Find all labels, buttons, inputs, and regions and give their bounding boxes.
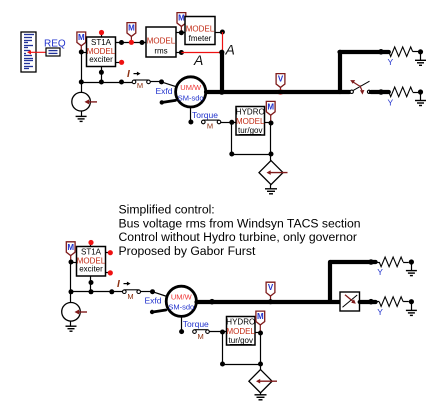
wire machine2 torque: [181, 316, 183, 331]
wire exciter2 upper-right stub: [106, 252, 109, 254]
node: [79, 80, 84, 85]
switch S1 (open, controlled): [350, 80, 371, 95]
probe M4 (fmeter input): [177, 13, 186, 33]
svg-text:M: M: [178, 14, 185, 23]
unconnected node (red) exciter top: [99, 30, 104, 35]
svg-text:SM-sdo: SM-sdo: [168, 303, 194, 312]
node: [179, 30, 184, 35]
svg-text:M: M: [197, 332, 203, 341]
node (red) under M2: [129, 40, 134, 45]
governor block HYDRO MODEL tur/gov: [236, 107, 265, 136]
wire M7 to exciter 2: [71, 262, 77, 264]
node: [409, 259, 414, 264]
node: [69, 289, 74, 294]
wire exciter2 top stub: [90, 244, 92, 247]
svg-text:A: A: [193, 52, 203, 68]
controlled source T2 (diamond): [249, 370, 277, 393]
node: [140, 40, 145, 45]
machine neutral stub: [160, 100, 176, 104]
svg-text:I: I: [127, 69, 130, 80]
node (red) under V1: [278, 89, 283, 94]
svg-text:MODEL: MODEL: [186, 25, 215, 34]
wire feedback right vertical: [270, 123, 272, 154]
branch top 2 (thick): [331, 260, 376, 264]
svg-text:Simplified control:: Simplified control:: [119, 203, 215, 217]
node: [368, 259, 374, 265]
node: [368, 299, 374, 305]
node under V2: [268, 299, 273, 304]
node: [269, 121, 274, 126]
wire feedback2 bottom: [223, 364, 261, 366]
wire hydro right stub: [265, 122, 272, 124]
node: [378, 89, 384, 95]
source V2 (AC source): [62, 303, 87, 322]
svg-text:MODEL: MODEL: [147, 37, 176, 46]
red request arrow: [27, 50, 46, 54]
node: [258, 362, 263, 367]
wire exciter top stub: [101, 34, 103, 37]
svg-text:Bus voltage rms from Windsyn T: Bus voltage rms from Windsyn TACS sectio…: [119, 216, 361, 230]
controlled source T1 (diamond): [259, 161, 288, 185]
bus main 2 (thick): [197, 300, 340, 304]
unconnected node (red) exciter2 top: [88, 240, 93, 245]
node: [188, 120, 193, 125]
wire (signal, red) fmeter down: [222, 32, 224, 52]
wire exciter lower-right stub: [116, 62, 120, 64]
ground R3: [406, 264, 417, 276]
node: [220, 362, 225, 367]
wire probe to hydro 2: [209, 331, 226, 333]
wire rms output stub: [176, 52, 181, 54]
svg-text:Torque: Torque: [183, 319, 209, 329]
ground source V2: [66, 321, 77, 331]
unconnected node (red): [119, 60, 124, 65]
machine2 neutral stub: [150, 310, 166, 314]
node: [409, 299, 414, 304]
node: [99, 80, 104, 85]
wire feedback2 left vertical: [222, 332, 224, 364]
wire source2 to node: [70, 292, 72, 303]
svg-text:tur/gov: tur/gov: [238, 126, 262, 135]
annotation text: [119, 203, 361, 258]
svg-text:A: A: [225, 42, 235, 58]
wire probe to hydro: [221, 122, 236, 124]
node: [179, 329, 184, 334]
bus node machine 2: [209, 299, 215, 305]
model box fmeter: [185, 17, 215, 45]
bus riser (thick): [220, 52, 224, 92]
probe M10 (governor 2): [256, 311, 265, 333]
ground T2: [255, 393, 267, 400]
svg-text:Exfd: Exfd: [156, 86, 173, 96]
ground R1: [415, 54, 426, 66]
svg-text:V: V: [278, 75, 284, 84]
node A junction: [219, 50, 224, 55]
probe V2 voltage: [266, 282, 275, 300]
wire exciter bottom: [101, 67, 103, 83]
probe V1 voltage: [276, 74, 285, 91]
svg-text:M: M: [137, 81, 143, 90]
svg-text:Control without Hydro turbine,: Control without Hydro turbine, only gove…: [119, 230, 357, 244]
wire switch2 to resistor R4: [360, 300, 376, 304]
wire bottom horizontal 2: [71, 291, 123, 293]
resistor R2 (lower load): [389, 87, 418, 97]
switch S2 (boxed, controlled): [340, 292, 360, 311]
node: [179, 50, 184, 55]
svg-text:M: M: [67, 243, 74, 252]
wire to source T2: [260, 364, 262, 370]
machine M1 UM/W SM-sdo: [176, 77, 206, 107]
current probe M3 with label I: [127, 69, 150, 90]
wire exciter output to rms: [116, 42, 147, 44]
exciter block U2 ST1A MODEL exciter: [77, 247, 106, 277]
branch riser (thick): [338, 52, 342, 92]
current probe M9 torque 2: [193, 330, 210, 341]
wire left vertical 2: [70, 262, 72, 292]
svg-text:Y: Y: [377, 307, 383, 317]
node: [150, 289, 155, 294]
node: [119, 40, 124, 45]
svg-text:ST1A: ST1A: [81, 248, 102, 257]
node exciter input: [79, 50, 84, 55]
branch riser 2 (thick): [328, 262, 332, 302]
wire bottom horizontal: [81, 82, 132, 84]
svg-text:Torque: Torque: [192, 110, 218, 120]
svg-text:Proposed by Gabor Furst: Proposed by Gabor Furst: [119, 244, 256, 258]
svg-text:M: M: [257, 312, 264, 321]
probe M2 (bus voltage): [127, 23, 136, 43]
wire rms to fmeter: [176, 32, 185, 34]
branch top (thick): [340, 50, 389, 54]
model box rms: [146, 27, 176, 57]
node: [119, 80, 124, 85]
probe M6 (governor): [266, 101, 275, 123]
node: [220, 30, 225, 35]
wire feedback2 right vertical: [260, 333, 262, 364]
ground R2: [415, 94, 426, 106]
svg-text:exciter: exciter: [89, 55, 113, 64]
wire hydro2 right stub: [255, 332, 261, 334]
wire feedback left vertical: [231, 122, 233, 154]
svg-text:HYDRO: HYDRO: [226, 318, 255, 327]
node: [378, 49, 384, 55]
bus junction: [219, 89, 225, 95]
svg-text:M: M: [78, 33, 85, 42]
svg-text:Exfd: Exfd: [145, 296, 162, 306]
unconnected node (red): [108, 270, 113, 275]
probe M7 (exciter input, circuit 2): [66, 242, 75, 262]
node: [220, 330, 225, 335]
svg-text:rms: rms: [154, 47, 167, 56]
wire probe to machine: [150, 82, 176, 87]
ground R4: [406, 304, 417, 316]
svg-text:exciter: exciter: [79, 265, 103, 274]
node: [89, 289, 94, 294]
node: [258, 331, 263, 336]
node: [109, 289, 114, 294]
bus main (thick): [206, 90, 349, 94]
wire exciter2 lower-right stub: [106, 272, 109, 274]
wire machine torque: [190, 107, 192, 122]
wire (signal, red) rms to node A: [181, 52, 222, 54]
machine M2 UM/W SM-sdo: [166, 286, 196, 316]
svg-text:UM/W: UM/W: [180, 83, 202, 92]
resistor R4 (lower load 2): [376, 297, 409, 307]
svg-text:MODEL: MODEL: [236, 117, 265, 126]
svg-text:Y: Y: [387, 57, 393, 67]
svg-text:MODEL: MODEL: [227, 327, 256, 336]
svg-text:HYDRO: HYDRO: [236, 108, 265, 117]
wire probe to machine 2: [141, 292, 168, 297]
wire source to node: [81, 82, 83, 92]
svg-text:tur/gov: tur/gov: [229, 336, 253, 345]
node: [229, 152, 234, 157]
node: [69, 260, 74, 265]
ground source V1: [76, 111, 87, 121]
wire M1 to exciter box: [81, 52, 86, 54]
current probe M8 with label I: [117, 279, 141, 301]
exciter block U1 ST1A MODEL exciter: [87, 37, 116, 67]
probe M1 (exciter input): [77, 32, 86, 52]
svg-text:ST1A: ST1A: [91, 38, 112, 47]
svg-text:Y: Y: [387, 97, 393, 107]
source V1 (AC source): [72, 92, 97, 111]
wire switch to resistor R1b: [371, 90, 389, 94]
wire to source T1: [270, 154, 272, 161]
wire left vertical: [81, 52, 83, 82]
node: [229, 120, 234, 125]
svg-text:I: I: [117, 279, 120, 290]
svg-text:Y: Y: [377, 267, 383, 277]
resistor R1 (upper load): [389, 47, 418, 57]
wire fmeter right stub: [215, 32, 222, 34]
file icon (disturbance data list): [21, 32, 36, 72]
svg-text:M: M: [207, 121, 213, 130]
svg-text:M: M: [127, 292, 133, 301]
node: [418, 49, 423, 54]
node: [418, 89, 423, 94]
svg-text:M: M: [267, 102, 274, 111]
wire feedback bottom: [232, 154, 271, 156]
node: [89, 280, 94, 285]
REQ source box: [46, 48, 60, 56]
unconnected node (red): [108, 250, 113, 255]
wire exciter2 bottom: [90, 276, 92, 292]
svg-text:UM/W: UM/W: [171, 292, 193, 301]
resistor R3 (upper load 2): [376, 257, 409, 267]
current probe M5 torque: [202, 120, 221, 130]
svg-text:V: V: [268, 283, 274, 292]
node: [269, 152, 274, 157]
svg-text:SM-sdo: SM-sdo: [178, 93, 204, 102]
svg-text:M: M: [128, 24, 135, 33]
node: [99, 70, 104, 75]
node: [159, 79, 164, 84]
ground T1: [265, 185, 277, 194]
svg-text:fmeter: fmeter: [189, 34, 212, 43]
governor block HYDRO MODEL tur/gov 2: [226, 317, 255, 346]
